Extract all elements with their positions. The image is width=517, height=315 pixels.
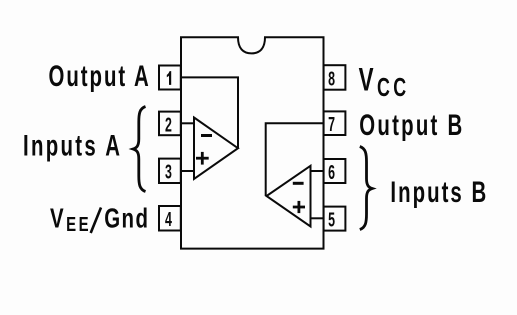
svg-text:Inputs B: Inputs B [390,176,488,209]
svg-text:6: 6 [328,161,335,184]
svg-text:7: 7 [328,113,335,136]
svg-text:8: 8 [328,67,335,90]
svg-text:Inputs A: Inputs A [23,130,122,163]
svg-text:3: 3 [165,160,172,183]
svg-text:VEE: VEE [50,204,91,236]
svg-text:Output B: Output B [359,109,464,142]
svg-text:4: 4 [165,208,172,231]
svg-text:5: 5 [328,208,335,231]
svg-text:Output A: Output A [49,60,151,93]
svg-text:2: 2 [165,113,172,136]
svg-text:VCC: VCC [359,62,410,102]
svg-text:Gnd: Gnd [104,204,149,235]
